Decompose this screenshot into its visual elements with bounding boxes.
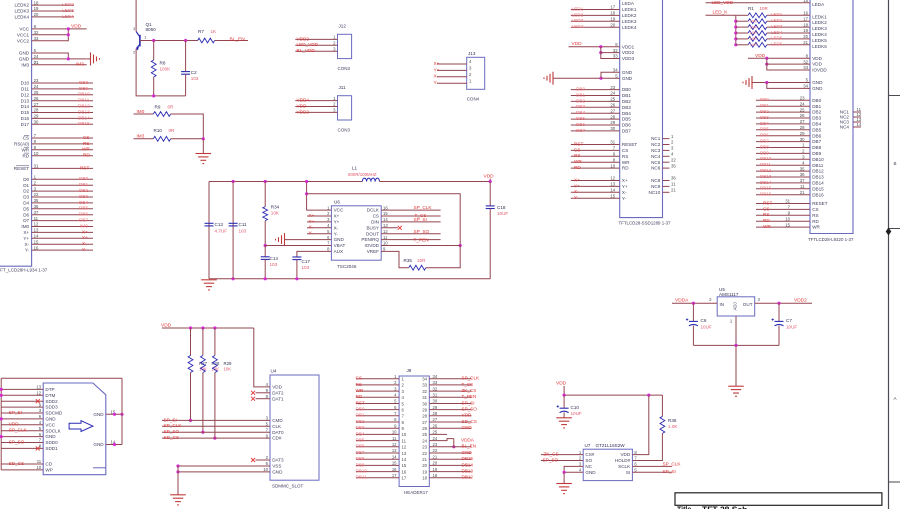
svg-text:25: 25 — [800, 107, 805, 112]
J9 designator — [407, 368, 412, 373]
svg-text:DB6: DB6 — [622, 123, 631, 128]
svg-text:ADJ: ADJ — [733, 302, 738, 310]
svg-text:10R: 10R — [750, 24, 757, 29]
svg-text:19: 19 — [433, 467, 438, 472]
wire J9 pin1 — [356, 378, 399, 380]
svg-text:103: 103 — [191, 76, 199, 81]
title block box — [675, 493, 882, 506]
net label VDD2 — [297, 36, 310, 41]
svg-text:X+: X+ — [574, 177, 580, 182]
no-connect SDD2 — [36, 399, 40, 403]
svg-text:21: 21 — [671, 188, 676, 193]
wire Q1 collector — [135, 0, 137, 32]
net label SP_SO (DAT0) — [164, 429, 180, 434]
wire P3 DB8 — [756, 147, 810, 149]
svg-text:DB13: DB13 — [812, 175, 824, 180]
wire P2 DB2 — [571, 100, 620, 102]
svg-text:21: 21 — [34, 60, 39, 65]
svg-text:B: B — [894, 161, 897, 166]
svg-text:X-: X- — [434, 74, 439, 79]
regulator U5 AMS1117 body — [717, 297, 755, 316]
junction LED_K bus — [734, 43, 737, 46]
svg-text:33: 33 — [803, 65, 808, 70]
net label DB7 — [79, 218, 89, 223]
wire R36 top — [661, 395, 663, 416]
svg-text:IM0: IM0 — [137, 109, 145, 114]
wire left rail — [208, 182, 210, 279]
connector P3 pin 33 IOVDD — [803, 65, 827, 72]
J9 pin 11 — [392, 436, 406, 444]
wire C6 bottom — [692, 326, 694, 346]
net label DB7 — [760, 139, 769, 144]
svg-text:VDD: VDD — [462, 413, 472, 418]
connector P2 pin 17 LEDK1 — [610, 5, 636, 12]
svg-text:33: 33 — [34, 36, 39, 41]
svg-text:BL_EN: BL_EN — [230, 36, 246, 42]
junction — [489, 180, 492, 183]
svg-text:GND: GND — [45, 417, 56, 422]
svg-text:DB11: DB11 — [760, 162, 771, 167]
connector J13 pin 1 — [469, 78, 472, 83]
wire P2 DB6 — [571, 124, 620, 126]
wire GND — [32, 58, 87, 60]
connector J12 designator — [339, 23, 347, 28]
wire J9 pin16 — [356, 471, 399, 473]
svg-text:CS: CS — [574, 147, 581, 152]
wire P3 DB14 — [756, 182, 810, 184]
svg-text:VDDA: VDDA — [461, 438, 475, 443]
svg-text:33: 33 — [433, 380, 438, 385]
J9 pin 2 — [394, 380, 404, 388]
U6 pin 1 VCC — [327, 205, 344, 212]
wire SD left bus — [0, 378, 2, 470]
wire SD GND15 — [106, 413, 122, 415]
connector P2 pin 12 X+ — [610, 176, 628, 183]
wire J9 pin28 — [429, 415, 471, 417]
wire J9 pin6 — [356, 409, 399, 411]
wire pin D2 — [32, 190, 93, 192]
svg-text:SDD1: SDD1 — [45, 446, 58, 451]
svg-text:GND: GND — [462, 450, 473, 455]
svg-text:Y+: Y+ — [334, 220, 340, 225]
svg-text:TFTLCD28-L9320 1-37: TFTLCD28-L9320 1-37 — [808, 237, 854, 242]
wire VDD into U4 — [254, 328, 270, 387]
resistor R36 1.0K — [660, 416, 678, 433]
wire LEDK2 — [767, 20, 810, 22]
svg-text:SP_CLK: SP_CLK — [462, 376, 481, 381]
junction — [0, 435, 3, 438]
U5 designator — [719, 287, 725, 292]
svg-text:DB3: DB3 — [760, 115, 769, 120]
no-connect DAT1 — [251, 397, 255, 401]
svg-text:27: 27 — [422, 420, 427, 425]
wire SD SDD3 — [1, 406, 43, 408]
net label Y- — [82, 247, 87, 252]
svg-text:RS: RS — [356, 382, 362, 387]
wire J9 pin25 stub — [429, 433, 447, 435]
net label DB0 — [576, 87, 586, 92]
net label DB5 — [760, 127, 769, 132]
U5 type — [719, 292, 739, 297]
wire C2 bottom — [185, 74, 187, 96]
svg-text:11: 11 — [800, 184, 805, 189]
U7 pin 8 VDD — [620, 450, 637, 457]
power label VDD (P2) — [572, 41, 583, 47]
capacitor C2 103 — [181, 70, 199, 81]
wire PENIRQ — [381, 239, 440, 241]
wire J9 pin31 — [429, 396, 471, 398]
wire CS — [381, 215, 440, 217]
wire IOVDD — [381, 245, 460, 247]
connector P2 pin 26 DB3 — [610, 103, 631, 110]
title block text — [677, 505, 747, 509]
svg-text:VDD: VDD — [272, 385, 282, 390]
svg-text:VDD: VDD — [812, 62, 822, 67]
net label CS — [763, 206, 770, 211]
svg-text:J12: J12 — [339, 23, 347, 28]
net label BL_EN (J9-23) — [462, 444, 477, 449]
connector P1 pin 26 D13 — [21, 96, 39, 103]
svg-text:15: 15 — [785, 222, 790, 227]
resistor R27 10K — [188, 356, 193, 373]
svg-text:4.7UF: 4.7UF — [215, 228, 228, 233]
svg-text:T_PEN: T_PEN — [462, 394, 477, 399]
net label DB6 (J9-12) — [356, 444, 365, 449]
svg-text:DB14: DB14 — [760, 180, 772, 185]
svg-text:30: 30 — [433, 399, 438, 404]
U4 pin 3 CMD — [266, 416, 284, 423]
svg-text:34: 34 — [422, 377, 427, 382]
svg-text:15: 15 — [610, 193, 615, 198]
svg-text:Y-: Y- — [622, 196, 627, 201]
svg-text:17: 17 — [392, 473, 397, 478]
svg-text:D15: D15 — [21, 110, 30, 115]
svg-text:30: 30 — [800, 137, 805, 142]
net label RST — [763, 200, 773, 205]
junction — [120, 413, 123, 416]
svg-text:DB4: DB4 — [812, 122, 821, 127]
wire C10 bottom — [563, 412, 565, 417]
connector P1 pin 9 RS(A0) — [14, 139, 37, 146]
net label Y- — [574, 195, 579, 200]
wire J9 pin18 — [429, 477, 471, 479]
wire P3 DB12 — [756, 170, 810, 172]
wire P2 DB0 — [571, 89, 620, 91]
ground (U4) — [170, 495, 186, 505]
wire P3 RESET — [756, 203, 810, 205]
wire pin Y- — [32, 249, 93, 251]
svg-text:34: 34 — [613, 68, 618, 73]
J9 pin 32 — [422, 386, 438, 394]
net label RD — [574, 165, 581, 170]
connector P1 pin 37 D6 — [23, 210, 39, 217]
wire P3 DB10 — [756, 158, 810, 160]
svg-text:VDD1: VDD1 — [622, 44, 635, 49]
svg-text:VREF: VREF — [367, 249, 379, 254]
svg-text:10: 10 — [383, 241, 388, 246]
wire R28 to DAT0 — [202, 373, 204, 433]
junction — [152, 39, 155, 42]
svg-text:X+: X+ — [622, 178, 628, 183]
svg-text:R36: R36 — [668, 418, 677, 423]
wire VDD rail (U4) — [162, 327, 254, 329]
svg-text:24: 24 — [34, 54, 39, 59]
net label VDD — [297, 103, 308, 108]
svg-text:SP_SI: SP_SI — [663, 469, 676, 474]
ground (P3, sideways) — [743, 76, 752, 89]
svg-text:DB3: DB3 — [812, 116, 821, 121]
connector P3 pin 26 DB3 — [800, 113, 822, 120]
svg-text:D1: D1 — [23, 183, 29, 188]
wire pin D10 — [32, 82, 93, 84]
connector J11 type CON3 — [338, 128, 351, 133]
wire P2 VDD1 — [569, 46, 620, 48]
U5 pin names — [709, 297, 760, 323]
wire VDD stub — [489, 179, 491, 182]
svg-text:RST: RST — [574, 141, 584, 146]
junction — [232, 277, 235, 280]
net label SP_CLK (U7) — [663, 462, 682, 467]
svg-text:21: 21 — [803, 40, 808, 45]
svg-text:28: 28 — [800, 125, 805, 130]
wire SD SDD0 — [1, 442, 43, 444]
svg-text:D4: D4 — [23, 201, 29, 206]
wire pin D5 — [32, 208, 93, 210]
resistor R29 10K — [213, 356, 218, 373]
svg-text:R29: R29 — [224, 361, 232, 366]
svg-text:25: 25 — [34, 90, 39, 95]
J9 pin 25 — [422, 430, 438, 438]
J9 pin 29 — [422, 405, 438, 413]
wire pin D15 — [32, 112, 93, 114]
connector P1 pin 14 Y+ — [23, 234, 39, 241]
net label LED_VDD — [297, 42, 319, 47]
wire U6 X+ — [307, 215, 331, 217]
wire pin X+ — [32, 231, 93, 233]
connector P3 pin 18 LEDK3 — [803, 22, 827, 31]
svg-text:DB7: DB7 — [812, 139, 821, 144]
svg-text:DB7: DB7 — [79, 218, 89, 223]
net label DB2 — [79, 188, 89, 193]
svg-text:VBAT: VBAT — [334, 243, 346, 248]
connector P2 pin 2 NC2 — [651, 140, 674, 147]
sheet zone letter A — [894, 396, 897, 401]
svg-text:LEDK4: LEDK4 — [812, 32, 827, 37]
wire P2 NC6 stub — [663, 167, 670, 169]
svg-text:13: 13 — [402, 451, 407, 456]
SD card pin 13 DTP — [36, 385, 54, 392]
svg-text:LED2: LED2 — [572, 12, 584, 17]
svg-text:ZK_CS: ZK_CS — [544, 452, 559, 457]
svg-text:RST: RST — [80, 165, 90, 170]
wire P2 DB4 — [571, 112, 620, 114]
connector J12 pin 1 — [333, 35, 336, 40]
net label DB16 — [760, 192, 772, 197]
wire SD right gnd vertical — [121, 378, 123, 444]
svg-text:WR: WR — [812, 225, 820, 230]
connector J11 pin 1 — [333, 96, 336, 101]
wire P3 NC2 stub — [853, 116, 861, 118]
svg-text:30: 30 — [610, 126, 615, 131]
sheet border zone tick 2 — [889, 228, 900, 230]
wire P2 LEDK3 — [571, 20, 620, 22]
svg-text:X-: X- — [622, 190, 627, 195]
net label DB3 (J9-9) — [356, 425, 365, 430]
svg-text:DB7: DB7 — [760, 139, 769, 144]
svg-text:D16: D16 — [21, 116, 30, 121]
wire J13 pin1 — [437, 82, 467, 84]
connector P3 pin 15 WR — [785, 222, 820, 229]
connector P2 pin 20 LEDK4 — [610, 22, 636, 29]
junction — [599, 45, 602, 48]
svg-text:RESET: RESET — [622, 142, 638, 147]
U6 pin 5 Y- — [327, 229, 338, 236]
no-connect DAT3 — [251, 458, 255, 462]
connector P1 pin 24 GND — [19, 54, 39, 61]
svg-text:26: 26 — [34, 96, 39, 101]
svg-text:13: 13 — [392, 448, 397, 453]
wire SD VCC — [1, 424, 43, 426]
net label DB9 — [760, 150, 769, 155]
svg-text:32: 32 — [803, 59, 808, 64]
svg-text:R8: R8 — [160, 61, 166, 66]
svg-text:IM0: IM0 — [80, 223, 88, 228]
svg-text:DB4: DB4 — [576, 110, 586, 115]
connector P2 pin 28 DB5 — [610, 114, 631, 121]
svg-text:DB7: DB7 — [356, 450, 365, 455]
connector P3 pin 5 GND — [806, 78, 823, 85]
svg-text:VDD3: VDD3 — [622, 56, 635, 61]
svg-text:LEDK3: LEDK3 — [812, 26, 827, 31]
svg-text:NC6: NC6 — [651, 166, 661, 171]
power label VDD (U7) — [556, 380, 567, 386]
svg-text:32: 32 — [613, 48, 618, 53]
connector P3 pin 10 RD — [785, 216, 819, 223]
net label LED6 — [771, 42, 783, 47]
svg-text:DB2: DB2 — [79, 188, 89, 193]
connector P3 pin 35 DB12 — [800, 166, 824, 173]
wire VDD rail (U7) — [564, 394, 662, 396]
U6 pin 4 X- — [327, 223, 339, 230]
connector P3 TFTLCD28-L9320 body — [810, 0, 853, 234]
svg-text:DB5: DB5 — [576, 116, 586, 121]
svg-text:14: 14 — [610, 188, 615, 193]
wire P2 Y- — [571, 197, 620, 199]
svg-text:SP_SI: SP_SI — [9, 410, 22, 415]
wire pin LEDK2 — [32, 4, 74, 6]
svg-text:C2: C2 — [191, 70, 197, 75]
net label VDD2 — [297, 109, 310, 114]
svg-text:DB8: DB8 — [356, 456, 365, 461]
wire U6 X- — [307, 227, 331, 229]
wire bottom rail — [209, 278, 490, 280]
svg-text:DB2: DB2 — [622, 99, 631, 104]
svg-text:RS: RS — [574, 153, 581, 158]
svg-text:18: 18 — [422, 476, 427, 481]
svg-text:R28: R28 — [212, 361, 220, 366]
wire U7 SO — [541, 460, 583, 462]
resistor R3 10R — [748, 25, 767, 30]
net label DB10 (J9-16) — [356, 468, 368, 473]
net label DB2 — [576, 98, 586, 103]
ground (TSC2046 rail) — [201, 280, 217, 290]
wire CD# — [162, 437, 270, 439]
SD card pin 10 WP — [36, 465, 52, 472]
svg-text:U4: U4 — [271, 369, 277, 374]
svg-text:26: 26 — [433, 423, 438, 428]
wire R34 to VBAT — [264, 221, 266, 246]
svg-text:35: 35 — [800, 166, 805, 171]
svg-text:CON3: CON3 — [338, 66, 351, 71]
connector P1 pin 22 D3 — [23, 192, 39, 199]
wire J12 pin1 — [295, 38, 337, 40]
net label T_PEN — [414, 237, 429, 242]
svg-text:RS(A0): RS(A0) — [14, 142, 30, 147]
J9 pin 5 — [394, 399, 404, 407]
svg-text:CS: CS — [356, 376, 362, 381]
net label X+ — [434, 61, 440, 66]
svg-text:14: 14 — [383, 217, 388, 222]
connector SD card symbol body — [43, 383, 106, 475]
U7 designator — [585, 443, 591, 448]
R28 labels — [212, 361, 220, 372]
connector P3 pin 21 DB16 — [800, 190, 824, 197]
connector P2 pin 16 LEDA (name only) — [622, 1, 635, 6]
svg-text:0R: 0R — [168, 105, 175, 110]
svg-text:X-: X- — [574, 189, 579, 194]
svg-text:DB12: DB12 — [462, 475, 474, 480]
J9 pin 33 — [422, 380, 438, 388]
wire P2 RD — [571, 167, 620, 169]
wire J9 pin21 — [429, 458, 471, 460]
wire P2 DB5 — [571, 118, 620, 120]
net label DB9 — [79, 86, 89, 91]
svg-text:34: 34 — [433, 374, 438, 379]
svg-text:30: 30 — [34, 120, 39, 125]
svg-text:DB11: DB11 — [78, 98, 90, 103]
svg-text:X+: X+ — [82, 229, 88, 234]
wire VREF to R35 — [381, 251, 409, 267]
svg-text:15: 15 — [402, 463, 407, 468]
net label RST (J9-5) — [356, 400, 365, 405]
connector P2 pin 25 DB2 — [610, 97, 631, 104]
svg-text:NC2: NC2 — [651, 142, 661, 147]
svg-text:CMD: CMD — [272, 418, 283, 423]
connector P2 pin 18 LEDK2 — [610, 11, 636, 18]
svg-text:SP_SO: SP_SO — [164, 429, 180, 434]
svg-text:23: 23 — [610, 85, 615, 90]
svg-text:37: 37 — [800, 178, 805, 183]
svg-text:26: 26 — [610, 103, 615, 108]
wire J13 pin2 — [437, 76, 467, 78]
net label Y+ — [574, 183, 580, 188]
J9 type label — [404, 490, 428, 495]
resistor R5 value — [750, 36, 757, 41]
wire DAT3 stub — [256, 459, 271, 461]
svg-text:17: 17 — [803, 16, 808, 21]
svg-text:19: 19 — [610, 17, 615, 22]
svg-text:23: 23 — [34, 78, 39, 83]
J9 pin 24 — [422, 436, 438, 444]
svg-text:10R: 10R — [750, 36, 757, 41]
wire pin RESET — [32, 167, 93, 169]
svg-text:DB12: DB12 — [812, 169, 824, 174]
net label DB11 — [78, 98, 90, 103]
svg-text:LEDK2: LEDK2 — [812, 20, 827, 25]
J9 pin 19 — [422, 467, 438, 475]
capacitor C7 10UF — [772, 318, 798, 329]
wire J9 pin8 — [356, 421, 399, 423]
